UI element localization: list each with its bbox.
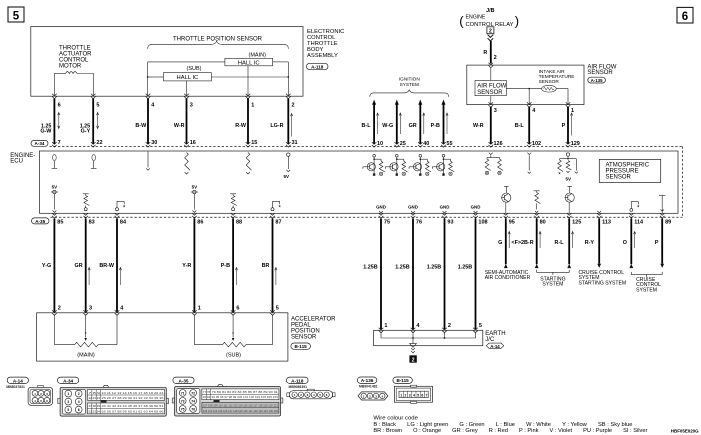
- svg-text:SENSOR: SENSOR: [606, 175, 632, 181]
- svg-text:<F>2B-R: <F>2B-R: [511, 240, 533, 246]
- svg-text:2: 2: [412, 357, 415, 363]
- svg-text:HALL IC: HALL IC: [177, 75, 199, 81]
- svg-text:B-L: B-L: [362, 123, 372, 129]
- svg-text:72: 72: [191, 392, 195, 396]
- svg-text:MOTOR: MOTOR: [59, 64, 82, 70]
- svg-text:22: 22: [96, 140, 102, 146]
- svg-text:7 8 9: 7 8 9: [89, 391, 101, 395]
- svg-text:P: P: [655, 240, 659, 246]
- svg-text:1.25B: 1.25B: [395, 265, 409, 271]
- svg-text:84: 84: [120, 220, 127, 226]
- svg-text:55: 55: [446, 141, 452, 147]
- svg-text:GR: GR: [75, 263, 83, 269]
- svg-text:52 53 54: 52 53 54: [89, 409, 101, 413]
- svg-text:1: 1: [400, 394, 402, 398]
- svg-text:SYSTEM: SYSTEM: [542, 282, 563, 288]
- svg-text:22 23 24: 22 23 24: [89, 396, 101, 400]
- svg-text:16: 16: [190, 140, 196, 146]
- svg-text:2: 2: [489, 29, 492, 35]
- svg-text:1.25B: 1.25B: [363, 265, 377, 271]
- svg-text:40: 40: [423, 141, 429, 147]
- svg-text:86: 86: [197, 220, 203, 226]
- svg-text:(SUB): (SUB): [226, 352, 241, 358]
- svg-text:1: 1: [384, 323, 387, 329]
- svg-text:AIR CONDITIONER: AIR CONDITIONER: [485, 275, 531, 281]
- svg-text:2: 2: [78, 392, 80, 396]
- svg-text:MB9089391: MB9089391: [289, 385, 308, 389]
- svg-text:113: 113: [602, 220, 611, 226]
- svg-text:G-Y: G-Y: [81, 129, 91, 135]
- svg-text:SENSOR: SENSOR: [587, 70, 613, 76]
- svg-text:129: 129: [571, 141, 580, 147]
- svg-text:5: 5: [276, 305, 279, 311]
- svg-text:HALL IC: HALL IC: [238, 60, 260, 66]
- svg-text:G: G: [498, 240, 502, 246]
- svg-text:7: 7: [58, 140, 61, 146]
- svg-text:1: 1: [251, 102, 254, 108]
- svg-text:(MAIN): (MAIN): [249, 53, 267, 59]
- svg-text:3: 3: [190, 102, 193, 108]
- svg-text:SYSTEM: SYSTEM: [636, 287, 657, 293]
- svg-text:6: 6: [78, 408, 80, 412]
- svg-text:2: 2: [494, 55, 497, 61]
- svg-text:SYSTEM: SYSTEM: [400, 82, 419, 87]
- svg-text:1: 1: [198, 305, 201, 311]
- svg-text:79 80 81 82 83 84 85 86 87 88: 79 80 81 82 83 84 85 86 87 88 89 90 91: [212, 390, 279, 394]
- svg-text:B : Black LG : Light gre: B : Black LG : Light green G : Green L :…: [373, 422, 632, 428]
- svg-text:2: 2: [292, 102, 295, 108]
- svg-text:Y-G: Y-G: [42, 263, 51, 269]
- svg-text:A-34: A-34: [35, 141, 45, 146]
- svg-text:125: 125: [572, 220, 581, 226]
- svg-text:5V: 5V: [566, 176, 572, 181]
- svg-text:BR-W: BR-W: [99, 263, 115, 269]
- svg-text:108: 108: [478, 220, 487, 226]
- svg-text:5V: 5V: [52, 184, 58, 189]
- svg-text:A-135: A-135: [591, 78, 604, 83]
- svg-text:7: 7: [426, 394, 428, 398]
- svg-text:(SUB): (SUB): [187, 66, 202, 72]
- svg-text:3: 3: [409, 394, 411, 398]
- svg-text:Wire colour code: Wire colour code: [373, 416, 418, 422]
- svg-text:A-34: A-34: [63, 378, 73, 383]
- svg-text:89: 89: [665, 220, 671, 226]
- svg-text:P-B: P-B: [221, 263, 230, 269]
- svg-text:J/B: J/B: [486, 8, 494, 14]
- svg-text:5V: 5V: [192, 184, 198, 189]
- svg-text:W-G: W-G: [382, 123, 393, 129]
- svg-text:THROTTLE POSITION SENSOR: THROTTLE POSITION SENSOR: [173, 37, 263, 43]
- svg-text:A-35: A-35: [35, 219, 45, 224]
- svg-text:R-W: R-W: [235, 123, 247, 129]
- svg-text:3: 3: [494, 108, 497, 114]
- svg-text:2: 2: [405, 394, 407, 398]
- svg-text:4: 4: [78, 400, 80, 404]
- svg-text:55 56 57 58 59 60 61 62 63 64: 55 56 57 58 59 60 61 62 63 64 65 66: [102, 409, 164, 413]
- svg-text:MB8037831: MB8037831: [6, 385, 25, 389]
- svg-text:102: 102: [532, 141, 541, 147]
- svg-text:2: 2: [448, 323, 451, 329]
- svg-text:B-L: B-L: [515, 123, 525, 129]
- svg-text:95: 95: [509, 220, 515, 226]
- svg-text:GND: GND: [440, 205, 450, 210]
- svg-text:HBF05E020G: HBF05E020G: [671, 428, 699, 433]
- svg-text:37 38 39: 37 38 39: [89, 404, 101, 408]
- svg-text:114: 114: [634, 220, 644, 226]
- svg-text:A-118: A-118: [311, 64, 324, 69]
- svg-text:4: 4: [413, 394, 415, 398]
- svg-text:(: (: [459, 13, 464, 28]
- svg-text:ASSEMBLY: ASSEMBLY: [307, 53, 338, 59]
- svg-text:107 108 109 110 111 112 113 11: 107 108 109 110 111 112 113 114 115 116 …: [203, 404, 278, 408]
- svg-text:W-R: W-R: [174, 123, 185, 129]
- svg-text:BR : Brown O : Orange: BR : Brown O : Orange GR : Grey R : Red …: [373, 428, 647, 434]
- svg-text:3: 3: [67, 400, 69, 404]
- svg-text:ECU: ECU: [10, 159, 23, 165]
- svg-text:88: 88: [236, 220, 242, 226]
- svg-text:6: 6: [421, 394, 423, 398]
- svg-text:O: O: [623, 240, 627, 246]
- svg-text:93: 93: [447, 220, 453, 226]
- svg-text:10 11 12 13 14 15 16 17 18 19: 10 11 12 13 14 15 16 17 18 19 20 21: [102, 391, 164, 395]
- svg-text:10: 10: [377, 141, 383, 147]
- svg-text:Y-R: Y-R: [182, 263, 191, 269]
- svg-text:R-L: R-L: [555, 240, 565, 246]
- svg-text:3: 3: [89, 305, 92, 311]
- svg-text:IGNITION: IGNITION: [399, 77, 420, 82]
- svg-text:GND: GND: [408, 205, 418, 210]
- svg-text:P: P: [562, 123, 566, 129]
- svg-text:77 78: 77 78: [203, 390, 211, 394]
- svg-text:25 26 27 28 29 30 31 32 33 34: 25 26 27 28 29 30 31 32 33 34 35 36: [102, 396, 164, 400]
- svg-text:MB9041481: MB9041481: [359, 385, 378, 389]
- svg-text:(MAIN): (MAIN): [77, 352, 95, 358]
- svg-text:LG-R: LG-R: [270, 123, 283, 129]
- svg-text:P-B: P-B: [431, 123, 440, 129]
- svg-text:40 41 42 43 44 45 46 47 48 49: 40 41 42 43 44 45 46 47 48 49 50 51: [102, 404, 164, 408]
- svg-text:GR: GR: [409, 123, 417, 129]
- svg-text:126: 126: [494, 141, 503, 147]
- svg-text:122 123 124 125 126 127 128 12: 122 123 124 125 126 127 128 129 130 131 …: [203, 409, 278, 413]
- svg-text:80: 80: [540, 220, 546, 226]
- svg-text:25: 25: [400, 141, 406, 147]
- svg-text:BR: BR: [262, 263, 270, 269]
- svg-text:94 95 96 97 98 99 100 101 102: 94 95 96 97 98 99 100 101 102 103 104 10…: [212, 395, 279, 399]
- svg-text:R-Y: R-Y: [585, 240, 595, 246]
- svg-text:A-136: A-136: [361, 378, 374, 383]
- svg-text:5: 5: [67, 408, 69, 412]
- svg-text:B-115: B-115: [396, 378, 409, 383]
- svg-text:15: 15: [251, 140, 257, 146]
- svg-text:31: 31: [292, 140, 298, 146]
- svg-text:30: 30: [151, 140, 157, 146]
- svg-text:6: 6: [236, 305, 239, 311]
- svg-text:5: 5: [96, 102, 99, 108]
- svg-text:A-14: A-14: [13, 378, 23, 383]
- svg-text:76: 76: [191, 408, 195, 412]
- svg-text:GND: GND: [376, 205, 386, 210]
- svg-text:SENSOR: SENSOR: [539, 79, 560, 85]
- svg-text:STARTING SYSTEM: STARTING SYSTEM: [579, 280, 627, 286]
- svg-text:73: 73: [181, 400, 185, 404]
- svg-text:1.25B: 1.25B: [458, 265, 472, 271]
- svg-text:A-35: A-35: [179, 378, 189, 383]
- svg-text:75: 75: [181, 408, 185, 412]
- svg-text:B-115: B-115: [294, 344, 307, 349]
- svg-text:1.25B: 1.25B: [427, 265, 441, 271]
- svg-text:74: 74: [191, 400, 195, 404]
- svg-text:83: 83: [89, 220, 95, 226]
- svg-text:W-R: W-R: [473, 123, 484, 129]
- svg-text:6: 6: [682, 11, 688, 23]
- svg-text:75: 75: [384, 220, 390, 226]
- svg-text:R: R: [483, 50, 487, 56]
- svg-text:5V: 5V: [283, 174, 289, 179]
- svg-text:1: 1: [67, 392, 69, 396]
- svg-text:G-W: G-W: [40, 129, 52, 135]
- svg-text:SENSOR: SENSOR: [291, 334, 317, 340]
- svg-text:71: 71: [181, 392, 185, 396]
- svg-text:5: 5: [417, 394, 419, 398]
- svg-text:92 93: 92 93: [203, 395, 211, 399]
- svg-text:A-118: A-118: [291, 378, 304, 383]
- svg-text:5: 5: [479, 323, 482, 329]
- svg-text:76: 76: [416, 220, 422, 226]
- svg-text:ENGINE: ENGINE: [466, 15, 486, 21]
- svg-text:6: 6: [58, 102, 61, 108]
- svg-text:2: 2: [58, 305, 61, 311]
- svg-text:GND: GND: [471, 205, 481, 210]
- svg-text:A-14: A-14: [490, 344, 500, 349]
- svg-text:87: 87: [275, 220, 281, 226]
- svg-text:B-W: B-W: [135, 123, 147, 129]
- svg-text:SENSOR: SENSOR: [477, 90, 503, 96]
- svg-text:AIR FLOW: AIR FLOW: [477, 83, 506, 89]
- svg-text:85: 85: [57, 220, 63, 226]
- svg-text:5: 5: [13, 10, 20, 22]
- svg-text:J/C: J/C: [485, 337, 495, 343]
- svg-text:): ): [515, 13, 519, 28]
